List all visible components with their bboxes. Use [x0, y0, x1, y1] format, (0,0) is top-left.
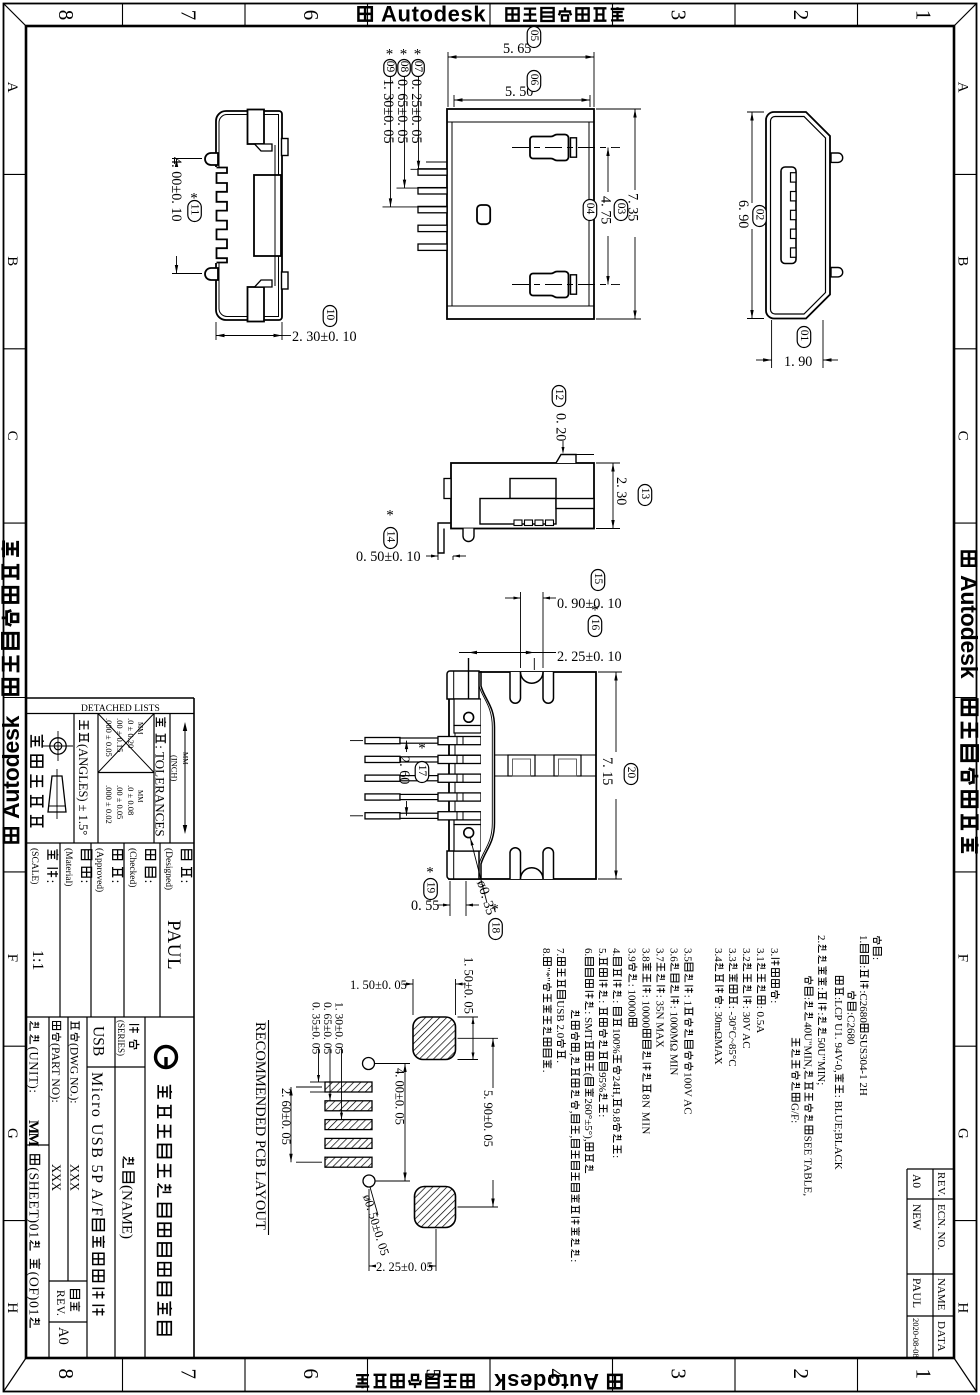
tol section bottom y843	[26, 842, 194, 844]
view3 face outline	[766, 112, 830, 319]
note line at x=761	[754, 948, 766, 1033]
svg-text:(SHEET)01: (SHEET)01	[27, 1167, 42, 1239]
zone label bottom 4	[544, 1369, 568, 1380]
note line at x=795.5	[789, 1038, 801, 1123]
svg-text:100V AC: 100V AC	[682, 1072, 694, 1115]
svg-text:.0 ± 0.20: .0 ± 0.20	[126, 718, 136, 748]
svg-text:16: 16	[589, 619, 601, 631]
dim text 0.20	[553, 413, 569, 441]
view3 contact tooth	[791, 248, 797, 257]
svg-text::C2680: :C2680	[845, 1012, 857, 1045]
view1 right inner edge	[274, 145, 276, 286]
view5 hole box top lower	[454, 726, 481, 734]
dim text 0.50±0.10	[356, 549, 421, 565]
svg-text::: :	[857, 965, 869, 968]
svg-text:: 0.5A: : 0.5A	[754, 1006, 766, 1034]
view4 front leg	[463, 529, 474, 542]
svg-text:DETACHED LISTS: DETACHED LISTS	[81, 704, 160, 714]
svg-text:A0: A0	[910, 1174, 922, 1188]
view5 pin	[365, 738, 400, 744]
svg-text::: :	[596, 1000, 608, 1003]
dim text 7.15	[599, 757, 615, 785]
svg-text:06: 06	[528, 74, 540, 86]
series/usb divider y1067	[87, 1066, 145, 1068]
svg-text::: :	[177, 880, 192, 884]
note line at x=719	[712, 948, 724, 1065]
svg-text::: :	[815, 987, 827, 990]
view2 front lip line	[447, 121, 594, 123]
balloon 04	[583, 200, 597, 221]
view5 pin	[365, 775, 400, 781]
zone label left F	[4, 954, 20, 962]
svg-text:C: C	[4, 431, 20, 441]
view5 bottom slot	[510, 848, 521, 879]
view2 inner right line	[588, 122, 590, 306]
zone label right A	[955, 82, 971, 93]
svg-text:SEE TABLE,: SEE TABLE,	[802, 1136, 814, 1197]
view2 pin	[418, 169, 447, 175]
svg-text:2. 60±0. 05: 2. 60±0. 05	[279, 1088, 293, 1145]
svg-text:2. 25±0. 10: 2. 25±0. 10	[557, 649, 622, 665]
zone tick left	[4, 522, 27, 524]
dim text 1.90	[784, 354, 812, 370]
zone tick bottom	[734, 1358, 736, 1392]
dim text 0.90±0.10	[557, 596, 622, 612]
note line at x=822	[815, 935, 827, 1085]
view5 hole top	[464, 712, 474, 722]
dim 1. 30±0. 05 line	[390, 76, 392, 207]
svg-text:ECN. NO.: ECN. NO.	[935, 1204, 947, 1250]
zone label left C	[4, 431, 20, 441]
value PAUL	[163, 920, 184, 970]
pcb dim 1.50a line	[403, 983, 413, 985]
svg-text:6. 90: 6. 90	[735, 200, 751, 228]
zone label bottom 1	[912, 1369, 936, 1380]
view4 side-view body	[451, 463, 594, 529]
label 第三角视图	[31, 735, 44, 828]
note line at x=733	[726, 948, 738, 1067]
svg-text:*: *	[418, 740, 426, 756]
note line at x=632.5	[626, 948, 638, 1026]
svg-text:,: ,	[568, 1111, 580, 1114]
svg-text:3: 3	[667, 1369, 691, 1380]
zone tick left	[4, 697, 27, 699]
label 料号(PART NO):	[49, 1021, 61, 1102]
dim text 6.90	[735, 200, 751, 228]
svg-text:3.8: 3.8	[640, 948, 652, 962]
corner diagonal bottom-right	[954, 1358, 977, 1392]
ext line shell edge	[426, 161, 447, 163]
zone tick top	[857, 4, 859, 27]
svg-text:0. 35±0. 05: 0. 35±0. 05	[310, 1002, 322, 1055]
title block outer	[26, 697, 194, 699]
zone tick top	[489, 4, 491, 27]
balloon 03	[614, 200, 628, 221]
pcb dim 2.25 line	[369, 1265, 376, 1267]
dim 7.35 ext lines	[596, 108, 641, 110]
view2 inner left line	[451, 122, 453, 306]
dim 5.50 ext lines	[453, 95, 455, 107]
svg-text:,: ,	[568, 1136, 580, 1139]
svg-text:6: 6	[299, 10, 323, 20]
svg-text:Autodesk: Autodesk	[956, 575, 980, 681]
svg-text:13: 13	[639, 488, 651, 500]
label 图号(DWG NO.):	[68, 1021, 80, 1103]
balloon 09	[386, 46, 394, 62]
balloon 16	[591, 602, 599, 618]
note line at x=646.5	[640, 948, 652, 1134]
zone label bottom 8	[54, 1369, 78, 1380]
third angle projection cone	[48, 776, 66, 812]
zone tick left	[4, 348, 27, 350]
dim 2.30±0.10 ext lines	[215, 322, 217, 340]
svg-text:7: 7	[177, 10, 201, 20]
bottom section line x145	[144, 1017, 146, 1358]
pcb dim 1.50b line	[472, 1017, 474, 1060]
label 系列(SERIES)	[129, 1025, 139, 1049]
dim text 7.35	[625, 193, 641, 221]
svg-text:5.: 5.	[596, 948, 608, 956]
view1 shield leg top	[205, 153, 218, 165]
balloon 08	[400, 46, 408, 62]
zone label bottom 5	[422, 1369, 446, 1380]
zone tick top	[244, 4, 246, 27]
zone tick right	[954, 522, 977, 524]
svg-text:02: 02	[753, 209, 765, 221]
title block row DETACHED LISTS	[26, 713, 194, 715]
svg-text:14: 14	[384, 531, 396, 543]
corner diagonal top-right	[954, 4, 977, 27]
view2 rear lip line	[447, 305, 594, 307]
view1 insulator rect	[254, 175, 281, 256]
pcb pad top	[413, 1017, 456, 1060]
dim 4.75 ext lines	[612, 147, 620, 149]
svg-text::LCP U1. 94V-0,: :LCP U1. 94V-0,	[832, 997, 844, 1073]
dim 4.75 dim line	[607, 148, 609, 193]
balloon 01	[797, 327, 811, 348]
zone label top 6	[299, 10, 323, 20]
pcb dim text 2.25±0.05	[376, 1260, 433, 1274]
view4 smt pin	[525, 520, 533, 526]
note line at x=851.5	[845, 991, 857, 1045]
zone tick left	[4, 1220, 27, 1222]
svg-text:17: 17	[416, 765, 428, 777]
mm/inch arrow	[184, 726, 186, 830]
pcb ext small b	[310, 1091, 325, 1093]
value USB	[90, 1026, 107, 1056]
value Micro USB 5P A/F 全贴有柱平口	[88, 1072, 105, 1315]
dim text 0. 25±0. 05	[408, 79, 424, 144]
note line at x=589	[582, 948, 594, 1173]
svg-text:H: H	[955, 1302, 971, 1313]
note line at x=877	[870, 936, 882, 960]
dim 4.00±0.10 dim line	[176, 159, 178, 162]
rev cell divider y1281	[49, 1280, 87, 1282]
svg-text:USB: USB	[90, 1026, 107, 1056]
unit cell divider y1145	[26, 1144, 49, 1146]
svg-text::: :	[610, 1155, 622, 1158]
dim text 5.65	[503, 41, 531, 57]
note line at x=660.5	[654, 948, 666, 1048]
value A0	[55, 1327, 71, 1345]
svg-text:2. 30±0. 10: 2. 30±0. 10	[292, 329, 357, 345]
svg-text::: :	[43, 880, 58, 884]
svg-text:2.: 2.	[815, 935, 827, 943]
view5 hole box top	[454, 699, 481, 726]
dim 1.90 ext lines	[771, 320, 773, 368]
svg-text:18: 18	[489, 922, 501, 934]
note line at x=617	[610, 948, 622, 1158]
zone label left H	[4, 1302, 20, 1313]
pcb dim text 5.90±0.05	[481, 1090, 495, 1147]
svg-text:G: G	[955, 1128, 971, 1139]
note line at x=808.5	[802, 976, 814, 1196]
bottom section line x115	[114, 1017, 116, 1358]
svg-text:0. 90±0. 10: 0. 90±0. 10	[557, 596, 622, 612]
label 角度(ANGLES) ± 1.5°	[76, 720, 90, 835]
value XXX dwg	[68, 1164, 82, 1191]
pcb dim Ø0.50 leader	[370, 1187, 378, 1215]
svg-text:1:1: 1:1	[29, 950, 46, 971]
dim 2.30±0.10 dim line	[216, 335, 282, 337]
svg-text:0. 20: 0. 20	[553, 413, 569, 441]
dim 7.15 dim line	[615, 672, 617, 752]
pcb hole bottom	[363, 1175, 375, 1187]
zone tick right	[954, 348, 977, 350]
svg-text:2: 2	[789, 1369, 813, 1380]
svg-text:PAUL: PAUL	[163, 920, 184, 970]
zone label right F	[955, 954, 971, 962]
zone tick top	[734, 4, 736, 27]
svg-text:(Material): (Material)	[63, 848, 74, 886]
svg-text:2. 30: 2. 30	[613, 477, 629, 505]
balloon 20	[624, 764, 638, 785]
svg-text:Autodesk: Autodesk	[0, 713, 24, 819]
svg-text:: 30V AC: : 30V AC	[740, 1006, 752, 1049]
svg-text:(PART NO):: (PART NO):	[49, 1043, 61, 1103]
svg-text::: :	[815, 1012, 827, 1015]
dim 2.25 dim line	[459, 652, 556, 654]
svg-text:3.4: 3.4	[712, 948, 724, 962]
svg-text:(SCALE): (SCALE)	[29, 848, 40, 884]
pcb dim 5.90 line	[492, 1038, 494, 1088]
svg-text:.00 ± 0.15: .00 ± 0.15	[115, 718, 125, 752]
pcb layout title underline	[268, 1020, 270, 1235]
svg-text:3.5: 3.5	[682, 948, 694, 962]
balloon 13	[638, 485, 652, 506]
dim 2.60 dim line	[406, 741, 408, 752]
svg-text:4.: 4.	[610, 948, 622, 956]
svg-text:Micro USB 5P A/F: Micro USB 5P A/F	[88, 1072, 105, 1217]
dim text 1. 30±0. 05	[380, 79, 396, 144]
zone label top 7	[177, 10, 201, 20]
view5 bottom slot	[543, 848, 554, 879]
note line at x=547	[540, 948, 552, 1073]
svg-text:6: 6	[299, 1369, 323, 1380]
svg-text:RECOMMENDED PCB LAYOUT: RECOMMENDED PCB LAYOUT	[252, 1022, 268, 1230]
pcb dim text 4.00±0.05	[393, 1068, 407, 1125]
pcb layout title	[252, 1022, 268, 1230]
watermark right (reads downward)	[962, 552, 976, 566]
svg-text:04: 04	[584, 203, 596, 215]
svg-text:A0: A0	[55, 1327, 71, 1345]
dim text 2.30	[613, 477, 629, 505]
label (Checked)	[141, 850, 156, 884]
note line at x=603	[596, 948, 608, 1117]
pcb finger pad	[325, 1082, 372, 1092]
note line at x=864	[857, 935, 869, 1096]
rev value 2020-08-08	[911, 1318, 921, 1358]
svg-text:DATA: DATA	[935, 1321, 947, 1352]
value 1:1	[29, 950, 46, 971]
svg-text:20: 20	[625, 767, 637, 779]
svg-text:(DWG NO.):: (DWG NO.):	[68, 1043, 80, 1104]
dim text 5.50	[505, 84, 533, 100]
dim 0.50 ext lines	[437, 530, 439, 560]
svg-text:MM: MM	[136, 722, 144, 735]
zone label bottom 6	[299, 1369, 323, 1380]
svg-text:2: 2	[789, 10, 813, 20]
zone tick bottom	[612, 1358, 614, 1392]
svg-text:MM: MM	[181, 752, 189, 765]
view1 inner shell line	[219, 115, 279, 317]
view5 bottom-left post	[447, 851, 479, 879]
pcb dim 1. 30±0. 05	[341, 1048, 343, 1120]
value XXX part	[49, 1164, 63, 1191]
view5 middle cutout	[554, 755, 581, 776]
note line at x=674.5	[668, 948, 680, 1075]
pcb dim 2.60 ext	[296, 1086, 322, 1088]
view1 bottom fold piece	[255, 280, 273, 287]
rev value NEW	[910, 1204, 922, 1230]
svg-text:95%: 95%	[596, 1072, 608, 1092]
svg-text::: :	[596, 1114, 608, 1117]
svg-text:: 10000: : 10000	[640, 995, 652, 1029]
tolerance inch text	[136, 722, 144, 735]
view1 right tab bottom	[282, 272, 289, 289]
svg-text:(Checked): (Checked)	[127, 848, 138, 887]
zone label right H	[955, 1302, 971, 1313]
svg-text:.00 ± 0.05: .00 ± 0.05	[115, 785, 125, 819]
view1 connector bottom-view body	[216, 111, 282, 320]
svg-text:(: (	[582, 1073, 594, 1077]
svg-text:7. 15: 7. 15	[599, 757, 615, 785]
view5 hole box bottom	[454, 825, 481, 852]
zone tick top	[122, 4, 124, 27]
svg-text:15: 15	[592, 573, 604, 585]
svg-text:3.: 3.	[768, 948, 780, 956]
svg-text:1: 1	[912, 10, 936, 20]
svg-text:3.9: 3.9	[626, 948, 638, 962]
svg-text:1. 50±0. 05: 1. 50±0. 05	[462, 957, 476, 1014]
designer col line x91	[90, 843, 92, 1017]
pcb dim 2.60 line	[290, 1087, 292, 1162]
dim 0.50 dim line	[426, 555, 438, 557]
svg-text:USB 2.0: USB 2.0	[554, 1000, 566, 1039]
view3 tongue slot	[781, 167, 796, 264]
designer col line x60	[59, 843, 61, 1017]
svg-text:REV.: REV.	[935, 1172, 947, 1197]
zone tick bottom	[857, 1358, 859, 1392]
svg-text:: 10000: : 10000	[626, 984, 638, 1018]
pcb dim 1.50b ext	[458, 1016, 479, 1018]
svg-text::: :	[77, 880, 92, 884]
svg-text:7.: 7.	[554, 948, 566, 956]
third angle projection symbol target	[50, 738, 66, 754]
dim 0. 25±0. 05 line	[418, 76, 420, 169]
zone label bottom 2	[789, 1369, 813, 1380]
svg-text:G: G	[4, 1128, 20, 1139]
dim 0.90 ext lines	[520, 592, 522, 668]
dim 7.35 dim line	[634, 109, 636, 190]
view4 left small step	[444, 479, 451, 499]
view5 pin	[365, 794, 400, 800]
dim 6.90 ext lines	[747, 111, 764, 113]
view4 front foot	[438, 523, 451, 553]
tolerance crossed box	[98, 714, 154, 773]
svg-text:09: 09	[384, 61, 396, 73]
watermark bottom (rotated 180)	[608, 1375, 621, 1388]
zone tick bottom	[489, 1358, 491, 1392]
view2 pin	[418, 206, 447, 212]
dim text 0.55	[411, 898, 439, 914]
svg-text:(INCH): (INCH)	[170, 755, 180, 782]
pcb dim 4.00 line	[404, 1064, 406, 1182]
zone tick bottom	[244, 1358, 246, 1392]
svg-text:24H,: 24H,	[610, 1076, 622, 1098]
label 单位(UNIT):	[27, 1021, 41, 1093]
dim 0.90 dim line	[505, 597, 521, 599]
label 版本 REV.	[70, 1290, 80, 1312]
company name 东莞市一上电子科技有限公司	[158, 1085, 172, 1335]
view2 pin	[418, 244, 447, 250]
pcb finger pad	[325, 1120, 372, 1130]
dim 2.25 ext lines	[468, 658, 470, 699]
view2 pin	[418, 188, 447, 194]
view1 pin zigzag	[217, 168, 228, 263]
tolerance mm text	[136, 790, 144, 803]
designer section bottom y1017	[26, 1016, 194, 1018]
dim 5.50 dim line	[454, 99, 590, 101]
svg-text:NEW: NEW	[910, 1204, 922, 1230]
svg-text:MM: MM	[136, 790, 144, 803]
view5 middle line upper	[449, 754, 596, 756]
svg-text:3.7: 3.7	[654, 948, 666, 962]
svg-text:B: B	[4, 256, 20, 266]
svg-text::: :	[768, 1000, 780, 1003]
svg-text:2020-08-08: 2020-08-08	[911, 1318, 921, 1358]
view4 top latch bump	[556, 455, 576, 464]
tol section line x98	[97, 714, 99, 844]
view3 contact tooth	[791, 210, 797, 219]
view1 top hold-down tab	[248, 110, 265, 145]
svg-text:1. 50±0. 05: 1. 50±0. 05	[350, 978, 407, 992]
dim 0.55 ext lines	[449, 881, 451, 916]
rev header REV.	[935, 1172, 947, 1197]
note line at x=839	[832, 976, 844, 1169]
view4 insulator upper	[510, 479, 556, 499]
view2 top-view body	[447, 109, 594, 319]
watermark top	[358, 7, 371, 20]
zone tick right	[954, 1045, 977, 1047]
designer col line x124	[123, 843, 125, 1017]
tol section line x74	[73, 714, 75, 844]
tol section line x170	[169, 714, 171, 844]
view4 smt pin	[535, 520, 543, 526]
balloon 12	[552, 386, 566, 407]
balloon 19	[426, 864, 434, 880]
svg-text:NAME: NAME	[935, 1278, 947, 1311]
